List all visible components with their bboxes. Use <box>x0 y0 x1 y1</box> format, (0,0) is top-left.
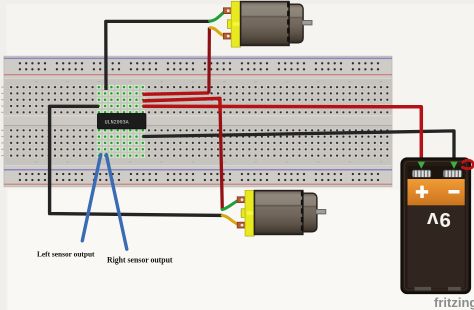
wire: red jumper, U1 row b to top motor red lead <box>143 93 209 94</box>
battery minus connection arrow <box>450 162 457 169</box>
motor M2 (bottom DC motor) <box>237 190 326 236</box>
svg-text:fritzing: fritzing <box>434 295 474 310</box>
battery terminal clips <box>412 170 431 177</box>
green lead of top motor M1 <box>210 11 226 22</box>
wire: black jumper, U1 left (row d) down and right to bottom motor junction <box>50 106 223 215</box>
svg-text:Right sensor output: Right sensor output <box>107 255 173 264</box>
wire: red lead of top motor M1 (vertical) <box>207 27 211 93</box>
battery red lead curl <box>462 160 473 168</box>
yellow lead of bottom motor M2 <box>222 215 239 224</box>
wire: red jumper, U1 row c down to bottom motor junction (lower part) <box>220 113 222 210</box>
breadboard <box>4 56 392 187</box>
svg-text:9v: 9v <box>426 208 451 231</box>
motor M1 (top DC motor) <box>223 1 312 47</box>
wire: red jumper, U1 row d to battery plus terminal <box>143 106 422 164</box>
annotation pointer: left sensor output <box>82 155 100 241</box>
battery label band (orange, + / -) <box>408 179 465 205</box>
wire: red jumper, U1 row c down to bottom motor junction (upper part) <box>143 98 221 113</box>
svg-text:Left sensor output: Left sensor output <box>37 250 95 259</box>
IC U1 ULN2003A <box>97 113 146 129</box>
wire: black jumper, breadboard row a to top motor junction <box>106 21 210 90</box>
wire: black jumper, U1 row g to battery minus terminal <box>142 131 454 164</box>
svg-text:ULN2003A: ULN2003A <box>105 119 129 125</box>
node highlight: ULN2003A pin columns (green connected holes) <box>97 85 145 158</box>
yellow lead of top motor M1 <box>210 28 226 37</box>
battery BT1 9V <box>402 159 474 294</box>
battery feet <box>415 287 432 291</box>
green lead of bottom motor M2 <box>222 200 239 210</box>
annotation pointer: right sensor output <box>106 155 127 250</box>
battery plus connection arrow <box>418 162 425 169</box>
